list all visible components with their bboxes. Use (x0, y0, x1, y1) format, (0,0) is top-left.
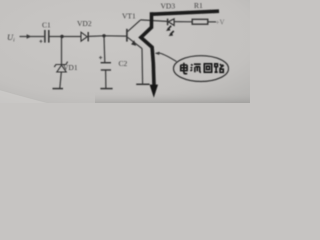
capacitor C1 plates (45, 30, 49, 43)
node B junction dot (102, 34, 105, 37)
wire C2 to ground (105, 70, 107, 88)
wire arrow to C1 (31, 36, 45, 38)
resistor R1 (192, 19, 208, 24)
capacitor C2 plates (101, 63, 111, 70)
zener diode VD1 (54, 62, 67, 72)
paper background (0, 0, 250, 103)
svg-text:C1: C1 (42, 21, 51, 30)
ground C2 (100, 88, 112, 90)
wire node A down to VD1 (61, 37, 63, 65)
LED arrow 1 (168, 26, 172, 30)
wire VD1 to ground (60, 72, 62, 88)
transistor VT1 base bar (126, 29, 128, 42)
input arrow shaft (20, 36, 28, 38)
thick current loop down zigzag (141, 12, 154, 85)
svg-text:VT1: VT1 (122, 12, 136, 21)
leader arrow from ellipse to thick line (159, 53, 177, 62)
ground emitter (136, 83, 149, 85)
node A junction dot (60, 35, 63, 38)
collector wire (128, 20, 141, 32)
emitter wire (128, 37, 142, 48)
emitter arrowhead (131, 40, 136, 46)
ellipse current-loop callout (174, 56, 229, 82)
label 流 (190, 64, 201, 72)
wire node B down to C2 (103, 36, 106, 62)
ground VD1 (53, 88, 64, 90)
wire VD3 to R1 (175, 21, 193, 23)
label 路 (215, 64, 224, 72)
bottom shading band (95, 91, 250, 103)
top rail collector to VD3 (141, 20, 168, 22)
wire C1 to VD2 (50, 36, 82, 38)
emitter to ground (141, 49, 144, 85)
text labels (7, 1, 225, 72)
label 回 (204, 64, 211, 72)
wire VD2 to base (89, 35, 127, 38)
bottom-left page corner light sliver (0, 90, 48, 103)
thick arrowhead (150, 85, 158, 98)
diode VD2 (81, 32, 88, 41)
svg-text:VD3: VD3 (161, 2, 176, 11)
C2 polarity plus (99, 56, 102, 59)
input arrowhead (27, 34, 32, 38)
LED VD3 (168, 19, 175, 26)
C1 polarity plus (39, 40, 42, 43)
wire R1 to +V (208, 21, 216, 23)
svg-text:C2: C2 (119, 59, 128, 68)
thick current loop top bar (152, 11, 219, 14)
svg-text:R1: R1 (194, 1, 203, 10)
label 电 (181, 63, 188, 74)
svg-text:+V: +V (216, 18, 225, 26)
LED arrow 2 (170, 31, 174, 35)
svg-text:VD1: VD1 (63, 63, 78, 72)
svg-text:VD2: VD2 (77, 19, 92, 28)
